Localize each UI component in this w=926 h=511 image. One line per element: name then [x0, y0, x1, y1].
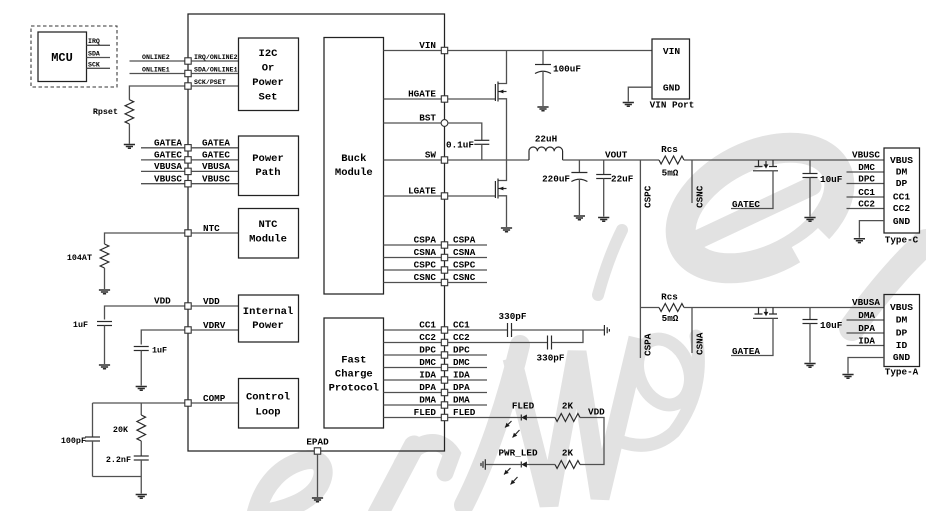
wire DPC	[847, 183, 885, 185]
svg-text:Rcs: Rcs	[661, 292, 678, 303]
pin COMP	[185, 400, 191, 406]
net VOUT wire	[563, 159, 659, 161]
pin HGATE	[441, 96, 447, 102]
svg-text:CSNC: CSNC	[695, 185, 706, 208]
wire Buck Module to pin CSNC	[384, 282, 442, 284]
svg-text:FLED: FLED	[512, 401, 535, 412]
wire pin GATEC to Power Path block	[191, 159, 238, 161]
wire C6 to ground	[140, 351, 142, 386]
svg-text:CSPC: CSPC	[453, 260, 476, 271]
wire Type-A GND to ground	[848, 358, 884, 374]
ground C3	[574, 216, 585, 220]
wire HGATE to Q1 gate	[448, 98, 496, 100]
pin NTC	[185, 230, 191, 236]
capacitor C12 330pF	[547, 336, 549, 350]
svg-text:330pF: 330pF	[537, 353, 565, 364]
capacitor C1 100uF	[542, 51, 544, 65]
wire pin COMP to Control Loop block	[191, 402, 238, 404]
svg-text:PWR_LED: PWR_LED	[498, 448, 537, 459]
svg-text:330pF: 330pF	[499, 311, 527, 322]
connector VIN Port box	[652, 39, 690, 99]
svg-text:Path: Path	[255, 167, 280, 179]
svg-text:1uF: 1uF	[73, 320, 88, 330]
svg-text:VOUT: VOUT	[605, 149, 628, 160]
svg-text:CC1: CC1	[858, 187, 875, 198]
net SW wire	[448, 159, 529, 161]
ground C5	[99, 365, 110, 369]
net CC2 wire	[448, 342, 548, 344]
wire Buck Module to pin CSNA	[384, 257, 442, 259]
wire IDA	[847, 345, 885, 347]
wire LGATE to Q2 gate	[448, 195, 496, 197]
svg-text:DM: DM	[896, 167, 908, 178]
net FLED wire	[448, 417, 522, 419]
resistor Rcs channel C 5mOhm	[659, 156, 684, 164]
block Power Path	[239, 136, 299, 196]
svg-text:CC2: CC2	[453, 332, 470, 343]
net DPC stub wire	[448, 354, 487, 356]
svg-text:100pF: 100pF	[61, 436, 86, 446]
net DPA stub wire	[448, 392, 487, 394]
svg-text:Internal: Internal	[243, 306, 293, 318]
pin SCK/PSET	[185, 83, 191, 89]
pin VDRV	[185, 327, 191, 333]
svg-text:GND: GND	[663, 83, 681, 94]
svg-text:Loop: Loop	[255, 407, 280, 419]
wire SCK/PSET to Rpset	[129, 86, 184, 100]
svg-text:CSPC: CSPC	[414, 260, 437, 271]
pin GATEC	[185, 157, 191, 163]
svg-text:VBUS: VBUS	[890, 302, 913, 313]
svg-text:DMA: DMA	[858, 310, 875, 321]
block I2C Or Power Set	[239, 38, 299, 111]
svg-text:CC2: CC2	[893, 203, 911, 214]
svg-text:FLED: FLED	[453, 407, 476, 418]
svg-text:IRQ/ONLINE2: IRQ/ONLINE2	[194, 54, 238, 61]
net VDD wire	[105, 306, 185, 320]
block Control Loop	[239, 379, 299, 429]
net GATEC stub wire	[141, 159, 185, 161]
MCU dashed enclosure	[31, 26, 117, 87]
wire R3 to C7	[140, 441, 142, 456]
wire 100pF down	[92, 441, 94, 477]
main IC U1 outline	[188, 14, 445, 451]
pin SDA/ONLINE1	[185, 70, 191, 76]
svg-text:100uF: 100uF	[553, 64, 581, 75]
net GATEA stub wire	[141, 147, 185, 149]
svg-text:22uF: 22uF	[611, 174, 634, 185]
svg-text:VBUS: VBUS	[890, 155, 913, 166]
wire NTC to thermistor	[105, 233, 185, 244]
svg-text:CC2: CC2	[419, 332, 436, 343]
svg-text:MCU: MCU	[51, 51, 73, 65]
svg-text:Power: Power	[252, 77, 284, 89]
ground 104AT	[99, 290, 110, 294]
wire Fast Charge Protocol to pin DPA	[384, 392, 442, 394]
svg-text:GND: GND	[893, 216, 911, 227]
wire Fast Charge Protocol to pin IDA	[384, 379, 442, 381]
wire 104AT to ground	[104, 268, 106, 289]
net CC1 wire	[448, 329, 508, 331]
net VBUSA stub wire	[141, 170, 185, 172]
net CSPA stub wire	[639, 308, 641, 359]
transistor Q1 high-side NMOS	[498, 51, 507, 84]
pin GATEA	[185, 145, 191, 151]
pin IDA	[441, 377, 447, 383]
pin DMA	[441, 402, 447, 408]
net IDA stub wire	[448, 379, 487, 381]
svg-text:DMC: DMC	[419, 357, 436, 368]
pin FLED	[441, 414, 447, 420]
svg-text:CC1: CC1	[419, 320, 436, 331]
svg-text:GND: GND	[893, 352, 911, 363]
resistor R5 2K	[555, 461, 580, 469]
wire Fast Charge Protocol to pin DPC	[384, 354, 442, 356]
svg-text:DPC: DPC	[453, 345, 470, 356]
pin IRQ/ONLINE2	[185, 58, 191, 64]
net CSNA stub wire	[691, 308, 693, 354]
connector Type-C box	[884, 148, 920, 233]
svg-text:DMA: DMA	[419, 395, 436, 406]
wire pin1 to I2C block	[191, 60, 238, 62]
pin LGATE	[441, 193, 447, 199]
wire pin VBUSA to Power Path block	[191, 170, 238, 172]
wire Q4 gate GATEA	[731, 318, 773, 355]
pin CC2	[441, 339, 447, 345]
block Internal Power	[239, 295, 299, 342]
net VIN wire	[448, 50, 652, 52]
svg-text:Control: Control	[246, 392, 290, 404]
net CSPC wire	[639, 160, 641, 308]
wire R4 to PWR_LED branch	[580, 418, 604, 465]
svg-text:VDD: VDD	[154, 296, 171, 307]
LED FLED	[520, 415, 522, 421]
resistor R3 20K	[137, 415, 146, 441]
svg-text:VBUSC: VBUSC	[154, 173, 182, 184]
pin CC1	[441, 327, 447, 333]
wire Buck Module to pin SW	[384, 159, 442, 161]
wire pin VBUSC to Power Path block	[191, 183, 238, 185]
pin DMC	[441, 364, 447, 370]
svg-text:CSPA: CSPA	[643, 333, 654, 356]
svg-text:DP: DP	[896, 328, 908, 339]
svg-text:GATEC: GATEC	[154, 150, 182, 161]
transistor Q3 load switch GATEC	[755, 160, 763, 167]
wire Buck Module to pin BST	[384, 122, 442, 124]
pin VDD	[185, 303, 191, 309]
ground C6	[136, 387, 147, 391]
svg-text:Charge: Charge	[335, 369, 373, 381]
wire C11 to shield point	[512, 329, 605, 331]
MCU U2 box	[38, 32, 87, 82]
svg-text:DPC: DPC	[858, 173, 875, 184]
MCU pin IRQ	[87, 44, 111, 46]
svg-text:DPA: DPA	[858, 323, 875, 334]
wire Fast Charge Protocol to pin FLED	[384, 417, 442, 419]
svg-text:VBUSA: VBUSA	[852, 297, 880, 308]
svg-text:Rpset: Rpset	[93, 107, 118, 117]
inductor L1 22uH	[529, 147, 563, 160]
resistor Rpset	[125, 100, 134, 124]
svg-text:IDA: IDA	[453, 370, 470, 381]
svg-text:EPAD: EPAD	[306, 437, 329, 448]
svg-text:SCK/PSET: SCK/PSET	[194, 79, 226, 86]
wire pin VDRV to Internal Power block	[191, 329, 238, 331]
pin CSNC	[441, 279, 447, 285]
svg-text:VIN Port: VIN Port	[650, 100, 695, 111]
wire FLED LED to R4	[527, 417, 555, 419]
transistor Q2 low-side NMOS	[498, 160, 507, 181]
svg-text:GATEC: GATEC	[202, 150, 230, 161]
capacitor C6 1uF	[134, 346, 149, 348]
pin VBUSC	[185, 181, 191, 187]
svg-text:CSNA: CSNA	[453, 247, 476, 258]
svg-text:GATEA: GATEA	[202, 137, 230, 148]
block NTC Module	[239, 209, 299, 259]
wire Type-C GND to ground	[859, 221, 884, 238]
net CSNC stub wire	[448, 282, 487, 284]
pin SW	[441, 157, 447, 163]
wire Fast Charge Protocol to pin DMC	[384, 367, 442, 369]
capacitor C10 10uF	[809, 308, 811, 320]
svg-text:FLED: FLED	[414, 407, 437, 418]
wire Rcs to VBUSC	[684, 159, 884, 161]
wire C5 to ground	[104, 326, 106, 365]
svg-text:DMA: DMA	[453, 395, 470, 406]
ground C10	[804, 364, 815, 368]
pin CSNA	[441, 254, 447, 260]
capacitor C9 10uF	[809, 160, 811, 174]
svg-text:Buck: Buck	[341, 153, 366, 165]
wire Buck Module to pin CSPC	[384, 269, 442, 271]
block Buck Module	[324, 38, 384, 295]
wire Rcs to VBUSA	[684, 307, 884, 309]
svg-text:10uF: 10uF	[820, 174, 843, 185]
svg-text:DPA: DPA	[453, 382, 470, 393]
LED PWR_LED	[520, 462, 522, 468]
connector Type-A box	[884, 295, 920, 367]
svg-text:HGATE: HGATE	[408, 89, 436, 100]
wire C9 to ground	[809, 178, 811, 217]
svg-text:CSNA: CSNA	[695, 332, 706, 355]
thermistor R2 104AT	[100, 244, 109, 268]
wire CC1 to Type-C	[847, 196, 885, 198]
wire pin GATEA to Power Path block	[191, 147, 238, 149]
svg-text:I2C: I2C	[259, 48, 279, 60]
svg-text:NTC: NTC	[259, 219, 279, 231]
ground C4	[598, 218, 609, 222]
svg-text:1uF: 1uF	[152, 346, 167, 356]
wire Buck Module to pin LGATE	[384, 195, 442, 197]
wire DPA	[847, 332, 885, 334]
wire BST to C2	[448, 123, 482, 140]
svg-text:VDD: VDD	[588, 407, 605, 418]
svg-text:SDA/ONLINE1: SDA/ONLINE1	[194, 67, 238, 74]
svg-text:DM: DM	[896, 315, 908, 326]
wire Q3 gate GATEC	[731, 171, 773, 209]
capacitor C11 330pF	[507, 323, 509, 337]
ground VIN Port	[623, 103, 634, 107]
svg-text:CC1: CC1	[893, 192, 911, 203]
svg-text:IRQ: IRQ	[88, 38, 100, 45]
resistor Rcs channel A 5mOhm	[640, 307, 659, 309]
svg-text:DMC: DMC	[858, 162, 875, 173]
pin VIN	[441, 47, 447, 53]
svg-text:2K: 2K	[562, 401, 574, 412]
wire pin NTC to NTC Module block	[191, 232, 238, 234]
wire DMC	[847, 171, 885, 173]
wire comp bottom	[93, 476, 142, 478]
capacitor C2 0.1uF	[474, 139, 489, 141]
svg-text:VBUSA: VBUSA	[202, 161, 230, 172]
svg-text:22uH: 22uH	[535, 134, 557, 145]
capacitor C8 100pF	[85, 436, 100, 438]
svg-text:DPC: DPC	[419, 345, 436, 356]
svg-text:CSNC: CSNC	[414, 272, 437, 283]
net COMP wire	[93, 402, 185, 404]
svg-text:BST: BST	[419, 113, 436, 124]
ground Rpset	[124, 145, 135, 149]
svg-text:DPA: DPA	[419, 382, 436, 393]
svg-text:VIN: VIN	[663, 46, 681, 57]
ground EPAD	[312, 498, 323, 502]
wire C7 down	[140, 460, 142, 477]
wire Fast Charge Protocol to pin CC2	[384, 342, 442, 344]
svg-text:VBUSC: VBUSC	[202, 173, 230, 184]
svg-text:Rcs: Rcs	[661, 144, 678, 155]
svg-text:20K: 20K	[113, 425, 129, 435]
net DMC stub wire	[448, 367, 487, 369]
svg-text:CSNA: CSNA	[414, 247, 437, 258]
svg-text:CC2: CC2	[858, 198, 875, 209]
wire Rpset to ground	[128, 124, 130, 144]
wire COMP branch	[140, 403, 142, 415]
pin DPC	[441, 352, 447, 358]
block Fast Charge Protocol	[324, 318, 384, 428]
wire pin VDD to Internal Power block	[191, 305, 238, 307]
wire C4 to ground	[603, 179, 605, 217]
svg-text:ONLINE2: ONLINE2	[142, 54, 170, 61]
svg-text:Fast: Fast	[341, 355, 366, 367]
svg-text:CSNC: CSNC	[453, 272, 476, 283]
svg-text:IDA: IDA	[419, 370, 436, 381]
svg-text:SW: SW	[425, 150, 437, 161]
net DMA stub wire	[448, 404, 487, 406]
svg-text:GATEC: GATEC	[732, 199, 760, 210]
svg-text:IDA: IDA	[858, 335, 875, 346]
MCU pin SCK	[87, 67, 111, 69]
svg-text:VIN: VIN	[419, 40, 436, 51]
net ONLINE1 wire	[130, 73, 185, 75]
resistor R4 2K	[555, 414, 580, 422]
pin BST	[441, 120, 448, 127]
net VDRV wire	[141, 330, 185, 345]
svg-text:Set: Set	[259, 92, 278, 104]
wire Buck Module to pin CSPA	[384, 244, 442, 246]
pin DPA	[441, 389, 447, 395]
ground Q2 source	[501, 228, 512, 232]
wire EPAD to ground	[317, 454, 319, 497]
svg-text:Type-C: Type-C	[885, 235, 919, 246]
wire comp to ground	[140, 477, 142, 494]
svg-text:Module: Module	[249, 234, 287, 246]
svg-text:0.1uF: 0.1uF	[446, 140, 474, 151]
wire 100pF branch down	[92, 403, 94, 437]
svg-text:VBUSA: VBUSA	[154, 161, 182, 172]
ground C9	[804, 218, 815, 222]
svg-text:CSPC: CSPC	[643, 185, 654, 208]
wire Buck Module to pin HGATE	[384, 98, 442, 100]
svg-text:220uF: 220uF	[542, 174, 570, 185]
svg-text:2.2nF: 2.2nF	[106, 455, 131, 465]
net VBUSC stub wire	[141, 183, 185, 185]
shield terminal	[604, 325, 609, 336]
transistor Q4 load switch GATEA	[755, 308, 763, 315]
svg-text:104AT: 104AT	[67, 253, 92, 263]
svg-text:Power: Power	[252, 320, 284, 332]
net CSNA stub wire	[448, 257, 487, 259]
svg-text:10uF: 10uF	[820, 320, 843, 331]
ground C1	[537, 107, 548, 111]
net CSPC stub wire	[448, 269, 487, 271]
svg-text:Protocol: Protocol	[329, 383, 379, 395]
pin EPAD	[314, 448, 320, 454]
svg-text:CC1: CC1	[453, 320, 470, 331]
wire Fast Charge Protocol to pin CC1	[384, 329, 442, 331]
capacitor C7 2.2nF	[134, 455, 149, 457]
svg-text:Power: Power	[252, 153, 284, 165]
wire PWR_LED to chassis	[485, 464, 521, 466]
wire DMA	[847, 319, 885, 321]
svg-text:VBUSC: VBUSC	[852, 149, 880, 160]
wire VIN Port GND to ground	[628, 87, 652, 101]
svg-text:5mΩ: 5mΩ	[662, 313, 679, 324]
svg-text:DP: DP	[896, 178, 908, 189]
chassis ground PWR_LED	[481, 459, 485, 469]
wire CC2 to Type-C	[847, 208, 885, 210]
svg-text:GATEA: GATEA	[154, 137, 182, 148]
ground Type-C	[854, 239, 865, 243]
watermark	[256, 123, 926, 511]
svg-text:ONLINE1: ONLINE1	[142, 67, 170, 74]
wire pin2 to I2C block	[191, 73, 238, 75]
net ONLINE2 wire	[130, 60, 185, 62]
svg-text:SCK: SCK	[88, 61, 100, 68]
capacitor C4 22uF	[603, 160, 605, 175]
wire C10 to ground	[809, 324, 811, 363]
ground comp network	[136, 495, 147, 499]
svg-text:2K: 2K	[562, 448, 574, 459]
svg-text:DMC: DMC	[453, 357, 470, 368]
svg-text:SDA: SDA	[88, 51, 100, 58]
svg-text:CSPA: CSPA	[453, 235, 476, 246]
svg-text:Module: Module	[335, 167, 373, 179]
svg-text:CSPA: CSPA	[414, 235, 437, 246]
wire C2 to SW	[481, 144, 483, 160]
svg-text:LGATE: LGATE	[408, 186, 436, 197]
wire Fast Charge Protocol to pin DMA	[384, 404, 442, 406]
svg-text:GATEA: GATEA	[732, 346, 760, 357]
net CSNC stub wire	[691, 160, 693, 203]
pin VBUSA	[185, 168, 191, 174]
svg-text:ID: ID	[896, 340, 908, 351]
svg-text:Or: Or	[262, 63, 275, 75]
MCU pin SDA	[87, 57, 111, 59]
wire C1 to ground	[542, 71, 544, 106]
ground Type-A	[842, 375, 853, 379]
capacitor C5 1uF	[97, 321, 112, 323]
svg-text:5mΩ: 5mΩ	[662, 168, 679, 179]
